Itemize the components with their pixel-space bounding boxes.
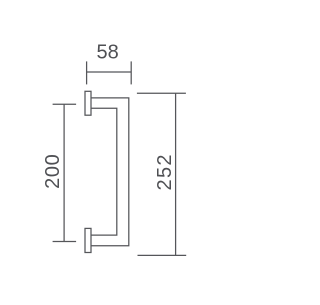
dimension 58 left tick: [86, 61, 88, 84]
svg-text:200: 200: [42, 154, 64, 189]
svg-text:252: 252: [154, 153, 176, 190]
svg-text:58: 58: [96, 42, 118, 64]
dimension 252 line: [175, 93, 177, 255]
dimension 252 top tick: [137, 92, 186, 94]
dimension 200 line: [63, 104, 65, 241]
handle bottom flange: [85, 228, 91, 252]
handle top flange: [85, 91, 91, 115]
handle outer outline wire: [91, 98, 129, 246]
dimension 58 right tick: [130, 61, 132, 84]
dimension 200 top tick: [53, 103, 77, 105]
dimension 58 line: [87, 71, 132, 73]
dimension 200 bottom tick: [53, 241, 77, 243]
dimension 252 bottom tick: [138, 254, 187, 256]
handle inner outline wire: [91, 108, 117, 235]
